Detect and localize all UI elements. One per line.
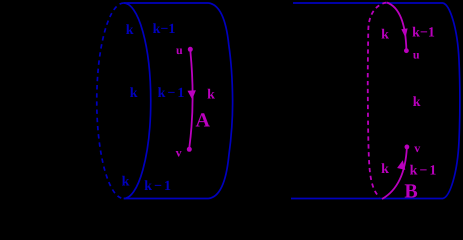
label k bottom-left (blue) xyxy=(122,175,130,190)
curve B bottom arc into v xyxy=(382,147,407,199)
point u (right) xyxy=(404,48,409,53)
label k top-left (blue) xyxy=(126,23,134,38)
label k right of curve A (magenta) xyxy=(207,87,215,102)
left cylinder left ellipse solid front half xyxy=(124,3,151,199)
point v (left) xyxy=(187,147,192,152)
left cylinder top line xyxy=(124,2,209,4)
svg-text:k−1: k−1 xyxy=(410,164,439,179)
label k-1 mid-left (blue) xyxy=(158,86,187,101)
svg-text:k: k xyxy=(207,87,215,102)
arrowhead on curve A xyxy=(188,90,196,99)
svg-text:u: u xyxy=(176,43,183,57)
point u (left) xyxy=(188,47,193,52)
svg-text:k: k xyxy=(413,95,421,110)
svg-text:k−1: k−1 xyxy=(144,179,173,194)
svg-text:v: v xyxy=(414,141,420,155)
label k middle (magenta right) xyxy=(413,95,421,110)
svg-text:A: A xyxy=(195,110,210,132)
svg-text:k−1: k−1 xyxy=(158,86,187,101)
svg-text:v: v xyxy=(176,145,182,159)
label k mid-left (blue) xyxy=(130,86,138,101)
left cylinder right end cap xyxy=(209,3,233,199)
label k-1 top-left (blue) xyxy=(153,22,176,37)
curve A from u to v xyxy=(189,52,192,148)
arrowhead on curve B top arc xyxy=(401,28,407,37)
label v (right) xyxy=(414,141,420,155)
label k-1 bottom (magenta right) xyxy=(410,164,439,179)
right cylinder right end cap xyxy=(443,3,460,199)
label u (left) xyxy=(176,43,183,57)
curve B dashed back half xyxy=(368,3,387,198)
label v (left) xyxy=(176,145,182,159)
point v (right) xyxy=(405,145,410,150)
right cylinder bottom line xyxy=(291,198,443,200)
label B xyxy=(404,181,417,203)
svg-text:u: u xyxy=(413,47,420,61)
svg-text:k: k xyxy=(381,28,389,43)
left cylinder left ellipse dashed back half xyxy=(97,3,124,199)
label u (right) xyxy=(413,47,420,61)
left cylinder bottom line xyxy=(124,198,209,200)
curve B top arc into u xyxy=(387,3,406,51)
label k-1 bottom-left (blue) xyxy=(144,179,173,194)
svg-text:k: k xyxy=(381,162,389,177)
svg-text:k−1: k−1 xyxy=(153,22,176,37)
right cylinder top line xyxy=(293,2,443,4)
svg-text:k: k xyxy=(126,23,134,38)
label A xyxy=(195,110,210,132)
svg-text:k: k xyxy=(130,86,138,101)
label k top (magenta right) xyxy=(381,28,389,43)
svg-text:k: k xyxy=(122,175,130,190)
arrowhead on curve B bottom arc xyxy=(397,160,405,170)
label k bottom (magenta right) xyxy=(381,162,389,177)
svg-text:k−1: k−1 xyxy=(412,26,435,41)
label k-1 top (magenta right) xyxy=(412,26,435,41)
svg-text:B: B xyxy=(404,181,417,203)
